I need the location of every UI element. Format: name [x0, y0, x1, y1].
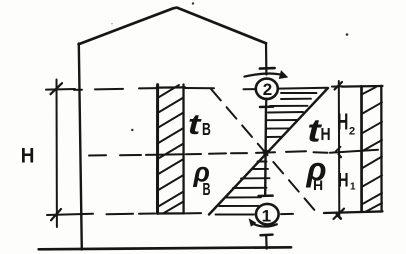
svg-text:1: 1 [262, 206, 271, 225]
right column hatching [362, 87, 382, 212]
speck left of tB [131, 129, 133, 131]
right brick column [324, 86, 383, 213]
pipe end bar above point 2 [260, 67, 275, 70]
rotation arrow over point 2 [245, 74, 280, 77]
return bar below point 1 [261, 233, 273, 236]
heater hatching lower triangle [216, 162, 270, 215]
solid diagonal of heater [209, 88, 328, 215]
svg-text:H: H [313, 177, 323, 193]
node 1 circle [256, 204, 279, 225]
top tick right [335, 82, 343, 90]
ground line [39, 247, 291, 249]
node 2 circle [256, 79, 278, 99]
speck upper right [346, 33, 349, 36]
stub below circle 2 [265, 99, 268, 108]
svg-text:H: H [21, 145, 35, 168]
svg-text:B: B [203, 179, 211, 199]
roof of building [79, 8, 266, 45]
bottom tick of H [51, 209, 61, 220]
left dimension line H [56, 80, 58, 228]
heater hatching upper triangle [267, 93, 317, 137]
dashed diagonal [211, 89, 317, 213]
left brick column [157, 85, 186, 214]
speck near peak [192, 2, 194, 4]
expansion pipe drop from roof corner [265, 43, 268, 75]
bottom level dashed line [107, 213, 294, 214]
svg-text:H: H [338, 170, 349, 191]
svg-text:H: H [321, 124, 331, 144]
bottom tick right [334, 209, 345, 219]
heater riser line [264, 107, 267, 196]
heater top bar [260, 105, 273, 108]
heater bottom bar [259, 194, 273, 197]
svg-text:2: 2 [349, 126, 355, 138]
svg-text:1: 1 [350, 182, 356, 193]
top tick of H [51, 83, 63, 94]
rotation arrow under point 1 [253, 224, 277, 227]
junction blob at crossing [263, 149, 269, 155]
right dimension line H1 H2 [338, 81, 341, 218]
speck near right dim line [325, 88, 327, 90]
return pipe to ground [265, 235, 268, 249]
svg-text:B: B [202, 120, 211, 140]
svg-text:2: 2 [263, 80, 272, 99]
top level dashed line [74, 88, 327, 90]
svg-text:H: H [337, 110, 348, 136]
middle tick right / level divider [330, 150, 378, 153]
faint speck over left roof [111, 23, 113, 25]
left wall [79, 44, 82, 250]
middle level dashed line [89, 151, 328, 155]
svg-text:t: t [188, 109, 203, 141]
left column hatching [158, 85, 184, 214]
